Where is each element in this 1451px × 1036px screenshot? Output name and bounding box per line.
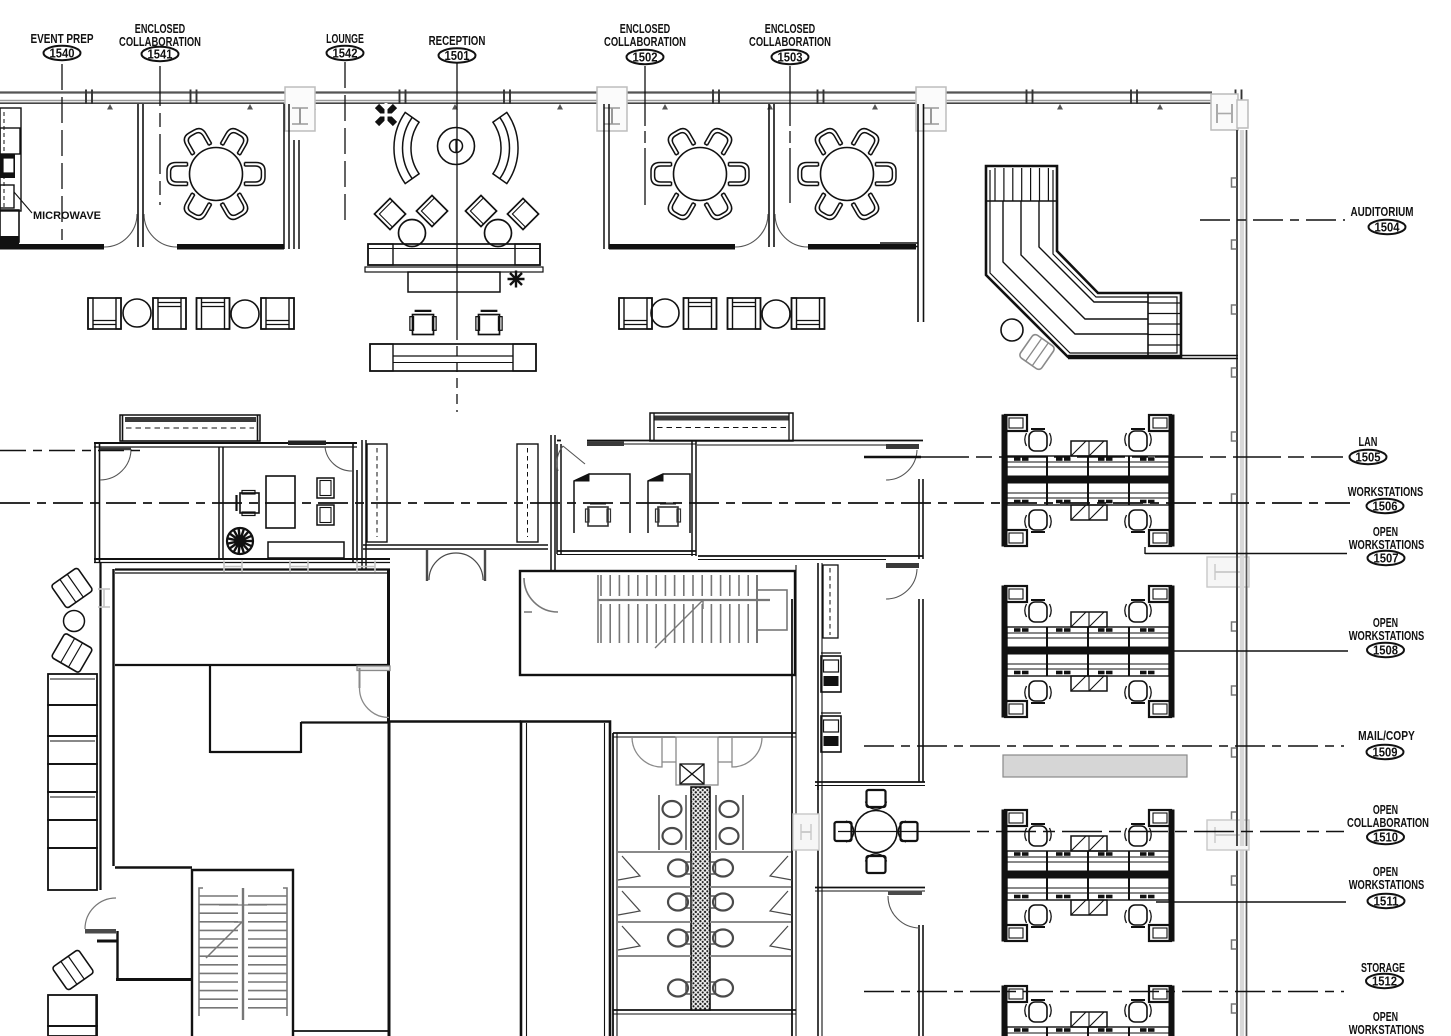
restroom vestibule X box [680,764,704,784]
closet above offices [650,413,793,441]
room D walls [697,444,886,446]
svg-text:1505: 1505 [1356,450,1381,464]
shaft rectangle [521,722,610,1036]
reception lower table [408,272,500,292]
bottom wall 1502 [609,244,735,250]
workstations cluster D partial [1002,986,1174,1036]
door arc room 1541 [144,214,177,247]
left block east wall lower [388,722,391,1036]
svg-text:1542: 1542 [333,46,358,60]
svg-text:COLLABORATION: COLLABORATION [1347,815,1429,830]
wall below 1503 [880,242,918,244]
svg-text:1510: 1510 [1373,830,1398,844]
left chairs upper [51,567,93,608]
bottom small line [292,1030,390,1032]
column H restroom east [793,814,819,850]
toilet stalls [618,852,792,997]
office A bottom wall [94,558,390,560]
svg-text:1501: 1501 [445,49,470,63]
lounge chair row east [619,298,652,329]
svg-text:1512: 1512 [1372,974,1397,988]
microwave label + leader [14,192,32,213]
leader line 1511 [1156,901,1346,903]
door arc room 1540 [104,214,137,247]
auditorium 1504 tiered seating [986,166,1181,357]
column I-symbols top wall [285,87,315,131]
stairwell 1 box [520,571,795,675]
leader line 1505 [864,456,921,459]
workstations cluster B [1002,586,1174,717]
lounge west wall [293,140,295,249]
svg-text:1506: 1506 [1373,499,1398,513]
mail room west wall [817,563,819,790]
auditorium gray chair [1018,333,1055,371]
office A desk [266,476,295,528]
room D door east top [886,444,919,449]
left block bottom wall upper room [115,664,390,666]
left chair lower [52,949,94,990]
office A task chair [237,491,260,516]
leader line 1509 [864,745,1344,747]
svg-text:STORAGE: STORAGE [1361,960,1405,975]
svg-text:1503: 1503 [778,50,803,64]
office A credenza [268,542,344,558]
leader line 1504 [1200,219,1345,221]
svg-text:MAIL/COPY: MAIL/COPY [1358,728,1415,743]
right wall room 1541 [283,104,285,249]
office A guest chairs [317,478,334,498]
office A left wall [94,443,96,562]
lockers left wall [99,563,101,890]
event prep fridge [0,128,20,154]
wall 1540/1541 [137,104,139,247]
svg-text:WORKSTATIONS: WORKSTATIONS [1348,484,1424,499]
lounge sofa with two chairs [410,311,436,335]
svg-text:1511: 1511 [1374,894,1399,908]
svg-text:WORKSTATIONS: WORKSTATIONS [1349,537,1425,552]
leader line 1542 [344,62,346,225]
corridor top wall to shaft [389,720,521,722]
room 1540 event prep counter [0,108,21,211]
office C chairs [586,504,611,527]
svg-text:MICROWAVE: MICROWAVE [33,210,101,222]
door arc big room NE [357,666,390,718]
bottom wall 1503 [808,244,916,250]
lounge diamond tables and chairs [374,198,405,229]
svg-text:1502: 1502 [633,50,658,64]
mail room printers [821,656,841,692]
asterisk symbol [508,271,525,288]
office C walls [557,440,561,442]
room 1503 east wall [917,104,919,322]
exterior wall right [1240,130,1244,1036]
svg-text:1507: 1507 [1374,551,1399,565]
leader line 1512 [864,991,1344,993]
leader line 1541 [159,66,161,205]
lounge round stool right [485,220,512,247]
auditorium round table [1001,319,1023,341]
office A east wall [352,443,354,562]
svg-text:WORKSTATIONS: WORKSTATIONS [1349,877,1425,892]
office A interior wall [218,447,220,560]
room 1502 west wall [603,104,605,249]
bottom wall room 1541 [177,244,284,250]
door arc 1502 [735,214,768,247]
bottom wall room 1540 [0,244,104,250]
room 1502 table with 6 chairs [674,148,727,201]
leader line 1501 [456,62,458,330]
left block stepped walls [209,665,211,753]
mail room east wall [918,599,920,782]
office A plant [227,528,253,554]
svg-text:1508: 1508 [1373,643,1398,657]
workstations cluster C [1002,810,1174,941]
svg-text:LAN: LAN [1359,434,1378,449]
leader line 1508 [1150,650,1348,652]
window mullions top wall [86,90,1242,105]
leader line 1540 [61,64,63,240]
column H-symbols right wall [1207,557,1249,587]
reception desk circle [438,128,475,165]
svg-text:WORKSTATIONS: WORKSTATIONS [1349,628,1425,643]
mail room door east [886,563,919,568]
office C desks [574,474,690,533]
office A door arc east [325,447,352,471]
closet above office [120,415,260,441]
section marks corridor [224,561,242,573]
svg-text:1504: 1504 [1375,220,1400,234]
restroom sinks [659,795,743,850]
svg-text:LOUNGE: LOUNGE [326,31,364,46]
leader line 1510 [930,831,1344,833]
leader line 1507 [1144,547,1146,554]
svg-text:RECEPTION: RECEPTION [429,33,486,48]
plant X symbol lounge [374,103,398,127]
door arc 1503 [775,214,808,247]
event prep lower cabinet [0,185,14,208]
svg-text:EVENT PREP: EVENT PREP [31,31,94,46]
door arc office A [100,449,131,480]
event prep appliance dark [0,154,15,178]
room 1541 table with 6 chairs [190,148,243,201]
mail/copy counter gray [1003,755,1187,777]
exterior wall top [0,91,1212,93]
room 1503 table with 6 chairs [821,148,874,201]
leader line grid y450 [0,450,144,452]
left block right wall [387,569,390,722]
mail room cabinet dashed [823,565,838,638]
workstations 1506 cluster A [1002,415,1174,546]
open collab chairs [898,821,917,842]
leader line 1503 [789,66,791,203]
curved sofa left [394,112,419,183]
svg-text:1509: 1509 [1373,745,1398,759]
reception long table [368,244,540,265]
vestibule east pier [517,444,538,542]
auditorium bottom wall to exterior [1068,355,1238,357]
storage room walls [817,786,819,1036]
office C door arc [587,442,624,447]
reception table lower shelf [365,267,543,272]
vestibule west pier [361,440,363,570]
room D east wall [918,479,920,559]
storage door header+arc [888,891,922,896]
svg-text:AUDITORIUM: AUDITORIUM [1351,204,1414,219]
restroom block walls [613,732,796,734]
event prep base [0,210,19,242]
left block west wall [112,569,114,866]
lounge chair row west [88,298,121,329]
open collab 1510 table [855,811,897,853]
leader line 1506 long centerline [0,502,1350,504]
office A top wall [94,442,357,444]
vestibule bottom wall [363,544,548,546]
door leaf+arc left wall [85,929,116,934]
stairwell 2 box [192,870,293,1036]
lounge round stool left [399,220,426,247]
svg-text:1540: 1540 [50,46,75,60]
mail room bottom wall [815,781,925,783]
lockers bottom left [48,995,97,1026]
vestibule double door [427,550,485,581]
svg-text:1541: 1541 [148,47,173,61]
wall 1502/1503 [768,104,770,247]
restroom entry doors [632,737,762,785]
svg-text:COLLABORATION: COLLABORATION [604,34,686,49]
leader line 1502 [644,66,646,205]
left block top wall [115,568,390,570]
svg-text:WORKSTATIONS: WORKSTATIONS [1349,1022,1425,1036]
curved sofa right [493,112,518,183]
svg-text:COLLABORATION: COLLABORATION [749,34,831,49]
